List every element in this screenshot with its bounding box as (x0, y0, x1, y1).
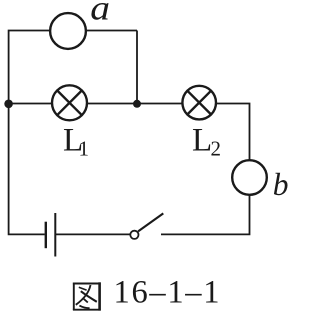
svg-text:L: L (192, 122, 212, 158)
svg-text:b: b (273, 167, 288, 202)
svg-text:2: 2 (211, 137, 222, 161)
svg-text:1: 1 (79, 137, 90, 161)
svg-text:a: a (90, 0, 110, 28)
svg-text:16–1–1: 16–1–1 (114, 275, 222, 311)
